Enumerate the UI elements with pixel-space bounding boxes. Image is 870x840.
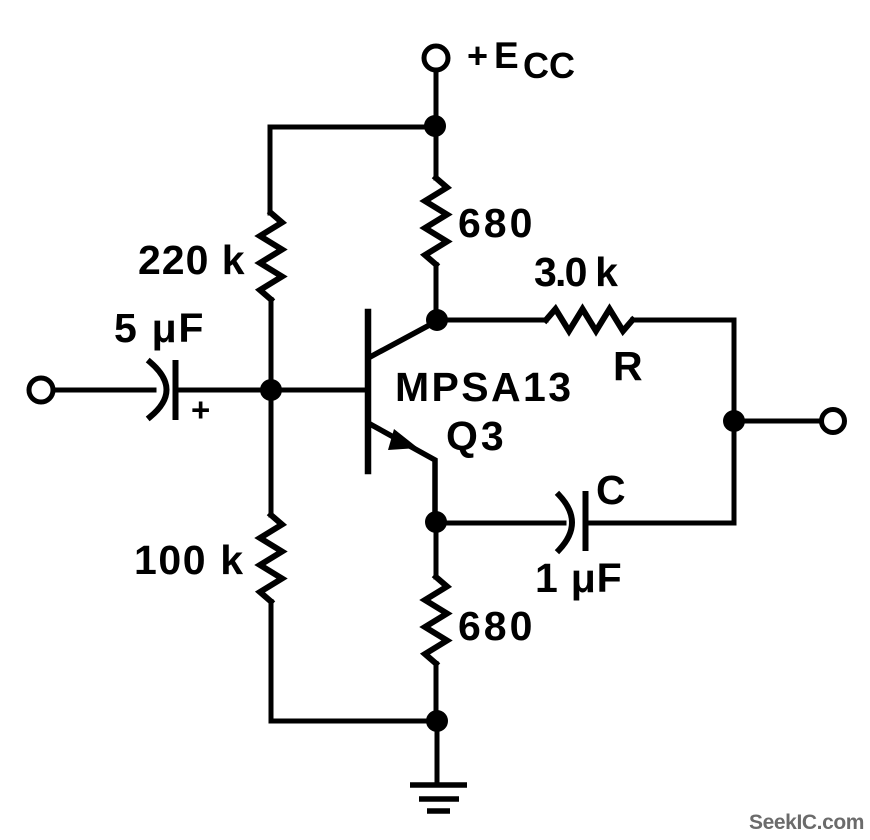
ground bar 3 — [427, 808, 450, 814]
wire 680 bottom to bottom node — [434, 664, 439, 722]
junction node emitter — [425, 511, 447, 533]
wire right vertical lower — [732, 421, 737, 523]
wire 680 top to collector node — [434, 265, 439, 321]
capacitor 5uF curved plate — [150, 362, 167, 417]
transistor Q3 collector lead — [370, 321, 437, 357]
resistor 680 bottom zigzag — [425, 577, 447, 664]
wire base node to 100k — [269, 390, 274, 515]
svg-text:3.0 k: 3.0 k — [534, 249, 618, 295]
junction node output — [723, 410, 745, 432]
wire bottom rail — [271, 719, 437, 724]
svg-text:Q3: Q3 — [446, 413, 507, 459]
svg-text:CC: CC — [523, 45, 575, 86]
wire 3.0k to right corner — [633, 318, 735, 323]
svg-text:E: E — [494, 35, 519, 76]
wire right vertical upper — [732, 320, 737, 421]
capacitor C straight plate — [583, 494, 589, 548]
wire top rail — [270, 125, 435, 130]
wire Ecc stub — [434, 71, 439, 127]
svg-text:+: + — [467, 35, 488, 76]
wire cap C left lead — [437, 521, 564, 526]
wire ground stem — [435, 721, 440, 785]
capacitor 5uF straight plate — [173, 363, 179, 417]
svg-text:220 k: 220 k — [138, 237, 246, 283]
junction node base — [260, 379, 282, 401]
svg-text:100 k: 100 k — [134, 537, 245, 583]
resistor R 3.0k zigzag — [546, 309, 633, 331]
terminal output — [822, 410, 845, 433]
wire emitter node down — [434, 523, 439, 577]
terminal +Ecc — [424, 46, 448, 70]
wire collector node to 3.0k — [437, 318, 546, 323]
transistor Q3 emitter arrow — [388, 429, 418, 450]
junction node top — [424, 115, 446, 137]
transistor Q3 base bar — [365, 312, 372, 471]
wire input lead — [53, 388, 154, 393]
svg-text:680: 680 — [458, 200, 535, 246]
wire output stub — [734, 419, 819, 424]
svg-text:R: R — [613, 343, 643, 389]
resistor 680 top zigzag — [425, 178, 447, 265]
wire left rail bottom — [269, 602, 274, 722]
wire cap to base node — [178, 388, 271, 393]
ground bar 1 — [410, 782, 467, 788]
ground bar 2 — [419, 796, 459, 802]
wire 220k to base node — [269, 300, 274, 391]
svg-text:MPSA13: MPSA13 — [395, 364, 573, 410]
wire left rail upper — [268, 127, 273, 213]
junction node collector — [426, 309, 448, 331]
wire cap C right lead — [589, 521, 734, 526]
transistor Q3 emitter lead — [370, 424, 435, 523]
transistor Q3 base lead — [271, 388, 368, 393]
resistor R 220k zigzag — [260, 213, 282, 300]
svg-text:SeekIC.com: SeekIC.com — [749, 811, 864, 834]
resistor R 100k zigzag — [260, 515, 282, 602]
junction node bottom — [426, 710, 448, 732]
label +Ecc — [467, 35, 575, 86]
capacitor C curved plate — [559, 495, 572, 550]
svg-text:C: C — [596, 467, 626, 513]
svg-text:5 μF: 5 μF — [114, 305, 205, 351]
svg-text:1 μF: 1 μF — [535, 555, 623, 601]
svg-text:680: 680 — [458, 603, 535, 649]
terminal input — [29, 378, 53, 402]
svg-text:+: + — [191, 391, 210, 428]
wire 680 top upper lead — [434, 127, 439, 178]
